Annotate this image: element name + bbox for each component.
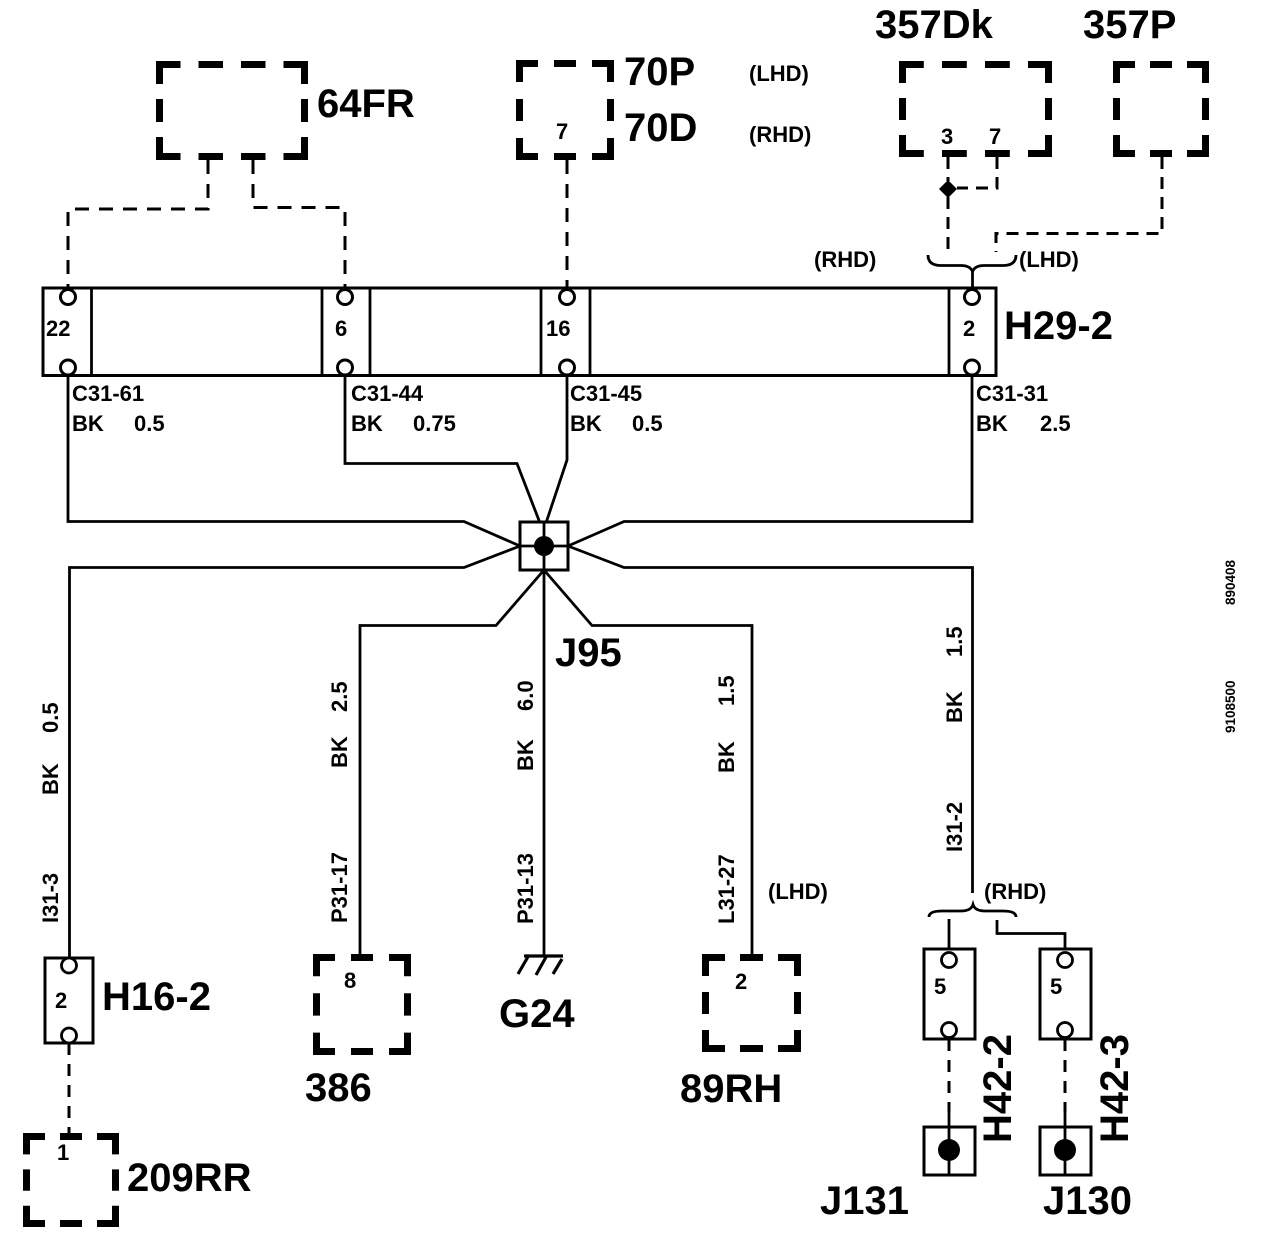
svg-text:22: 22 [46, 316, 70, 341]
svg-text:C31-45: C31-45 [570, 381, 642, 406]
wire J95 to H16-2 [70, 546, 521, 958]
wire J95 to 89RH [544, 570, 752, 954]
connector H42-2 [924, 949, 975, 1039]
svg-text:J95: J95 [555, 631, 622, 675]
connector 64FR (dashed box) [156, 61, 308, 160]
connector 209RR (dashed box) [23, 1133, 119, 1227]
svg-text:J130: J130 [1043, 1179, 1132, 1223]
svg-text:209RR: 209RR [127, 1156, 252, 1200]
svg-text:386: 386 [305, 1066, 372, 1110]
pin 16 circles [560, 290, 575, 305]
svg-text:BK: BK [570, 411, 602, 436]
svg-text:2.5: 2.5 [1040, 411, 1071, 436]
svg-text:0.5: 0.5 [134, 411, 165, 436]
svg-text:BK: BK [513, 739, 538, 771]
wire 64FR left pin to H29-2 pin 22 (dashed) [68, 160, 208, 288]
connector H29-2 bar [43, 288, 996, 376]
svg-text:G24: G24 [499, 992, 575, 1036]
svg-text:64FR: 64FR [317, 82, 415, 126]
junction J95 box [520, 522, 568, 570]
svg-text:(RHD): (RHD) [814, 247, 876, 272]
connector 357P (dashed box) [1113, 61, 1209, 157]
pin 6 cell dividers [321, 288, 324, 376]
connector 89RH (dashed box) [702, 954, 801, 1052]
connector 386 (dashed box) [313, 954, 411, 1055]
wire brace to H42-3 [997, 920, 1065, 949]
svg-text:(LHD): (LHD) [1019, 247, 1079, 272]
svg-text:L31-27: L31-27 [714, 854, 739, 924]
connector H16-2 [45, 958, 93, 1043]
svg-text:357P: 357P [1083, 3, 1176, 47]
connector 70P/70D (dashed box) [516, 60, 614, 160]
splice J130 [1040, 1127, 1091, 1175]
svg-text:BK: BK [714, 741, 739, 773]
wire pin 22 to J95 [68, 375, 520, 546]
wire 357Dk pin 3 down (dashed) [947, 157, 950, 181]
wire J95 to 386 [360, 570, 544, 954]
svg-text:1.5: 1.5 [942, 626, 967, 657]
svg-text:89RH: 89RH [680, 1067, 782, 1111]
svg-text:8: 8 [344, 968, 356, 993]
wire 64FR right pin to H29-2 pin 6 (dashed) [253, 160, 345, 288]
svg-text:16: 16 [546, 316, 570, 341]
svg-text:(RHD): (RHD) [984, 879, 1046, 904]
svg-text:7: 7 [989, 124, 1001, 149]
wire brace to pin 2 [971, 272, 974, 290]
svg-text:P31-13: P31-13 [513, 853, 538, 924]
brace over H42 connectors [929, 905, 1016, 918]
svg-text:H42-2: H42-2 [976, 1034, 1020, 1143]
svg-text:BK: BK [976, 411, 1008, 436]
svg-text:H42-3: H42-3 [1093, 1034, 1137, 1143]
svg-text:0.5: 0.5 [38, 702, 63, 733]
svg-text:5: 5 [934, 974, 946, 999]
wire H42-3 to J130 (dashed) [1064, 1039, 1067, 1112]
svg-text:3: 3 [941, 124, 953, 149]
svg-text:BK: BK [351, 411, 383, 436]
svg-text:6: 6 [335, 316, 347, 341]
connector H42-3 [1040, 949, 1091, 1039]
wire pin 2 to J95 [568, 375, 972, 546]
svg-text:2: 2 [963, 316, 975, 341]
wire splice to brace (dashed) [947, 197, 950, 250]
svg-text:0.75: 0.75 [413, 411, 456, 436]
splice dot under 357Dk [939, 180, 957, 198]
wire J95 right to H42 branch [568, 546, 973, 893]
svg-text:2.5: 2.5 [327, 681, 352, 712]
pin 2 cell divider [948, 288, 951, 376]
svg-text:70P: 70P [624, 50, 695, 94]
svg-text:(LHD): (LHD) [768, 879, 828, 904]
svg-text:BK: BK [327, 736, 352, 768]
svg-text:H16-2: H16-2 [102, 975, 211, 1019]
pin 22 cell divider [90, 288, 93, 376]
svg-text:9108500: 9108500 [1223, 680, 1238, 733]
svg-text:890408: 890408 [1223, 559, 1238, 605]
wire 357Dk pin 7 elbow to splice (dashed) [957, 157, 997, 188]
svg-text:C31-61: C31-61 [72, 381, 144, 406]
svg-text:(RHD): (RHD) [749, 122, 811, 147]
wire H42-2 to J131 (dashed) [948, 1039, 951, 1112]
wire 357P to brace area (dashed) [996, 157, 1162, 252]
brace over H29-2 pin 2 [928, 255, 1016, 272]
svg-text:2: 2 [735, 969, 747, 994]
svg-text:1.5: 1.5 [714, 675, 739, 706]
svg-text:BK: BK [38, 763, 63, 795]
svg-text:BK: BK [72, 411, 104, 436]
junction J95 dot [534, 536, 554, 556]
svg-text:(LHD): (LHD) [749, 61, 809, 86]
pin 22 circles [61, 290, 76, 305]
wire H16-2 to 209RR (dashed) [68, 1043, 71, 1133]
svg-text:2: 2 [55, 988, 67, 1013]
svg-text:H29-2: H29-2 [1004, 304, 1113, 348]
svg-text:70D: 70D [624, 106, 697, 150]
wire pin 6 to J95 [345, 375, 540, 523]
wire 70P/70D pin 7 to H29-2 pin 16 (dashed) [566, 160, 569, 288]
ground G24 symbol [518, 955, 563, 975]
svg-text:I31-3: I31-3 [38, 873, 63, 923]
svg-text:1: 1 [57, 1140, 69, 1165]
svg-text:5: 5 [1050, 974, 1062, 999]
svg-text:P31-17: P31-17 [327, 852, 352, 923]
connector 357Dk (dashed box) [899, 61, 1052, 157]
wire pin 16 to J95 [546, 375, 567, 523]
svg-text:0.5: 0.5 [632, 411, 663, 436]
svg-text:6.0: 6.0 [513, 680, 538, 711]
svg-text:C31-44: C31-44 [351, 381, 424, 406]
splice J131 [924, 1127, 975, 1175]
wire J95 to ground G24 [543, 570, 546, 956]
svg-text:I31-2: I31-2 [942, 802, 967, 852]
svg-text:J131: J131 [820, 1179, 909, 1223]
wire brace to H42-2 [948, 919, 951, 949]
pin 6 circles [338, 290, 353, 305]
svg-text:357Dk: 357Dk [875, 3, 994, 47]
svg-text:7: 7 [556, 119, 568, 144]
pin 2 circles [965, 290, 980, 305]
svg-text:C31-31: C31-31 [976, 381, 1048, 406]
svg-text:BK: BK [942, 691, 967, 723]
pin 16 cell dividers [540, 288, 543, 376]
